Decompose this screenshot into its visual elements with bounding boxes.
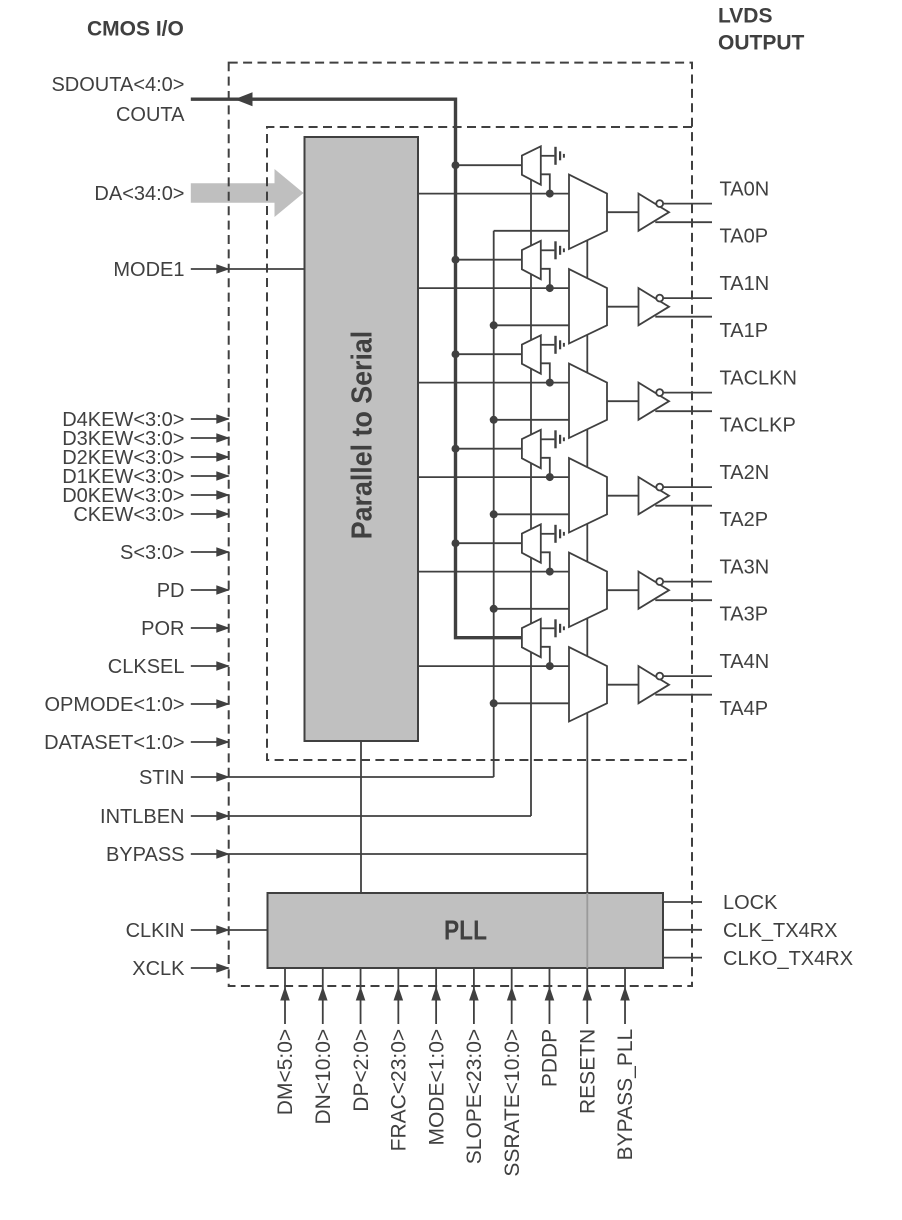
output mux X4 (big) (569, 553, 607, 627)
svg-text:BYPASS_PLL: BYPASS_PLL (614, 1029, 637, 1161)
wire serializer clock (P2S bottom to PLL top) (360, 741, 362, 893)
junction dot STIN ch5 (490, 699, 498, 707)
output mux X1 (big) (569, 269, 607, 343)
wire+arrow input OPMODE<1:0> (191, 699, 230, 709)
label TA3P (720, 603, 769, 625)
svg-text:SSRATE<10:0>: SSRATE<10:0> (501, 1029, 524, 1177)
wire loopback tap ch1 (456, 259, 522, 261)
wire STIN horizontal (229, 776, 494, 778)
label CKEW<3:0> (73, 504, 184, 526)
wire loopback mux out ch4 (541, 552, 550, 571)
svg-text:TA4N: TA4N (720, 651, 770, 673)
wire mux X1 to driver (607, 306, 639, 308)
wire loopback mux out ch1 (541, 269, 550, 288)
svg-text:TACLKP: TACLKP (720, 414, 796, 436)
svg-text:TA1P: TA1P (720, 320, 769, 342)
wire STIN stub to big mux ch0 (494, 230, 569, 232)
label XCLK (132, 958, 185, 980)
junction dot STIN ch1 (490, 321, 498, 329)
label TACLKP (720, 414, 796, 436)
LVDS driver A1 (639, 288, 670, 325)
wire STIN vertical (493, 231, 495, 777)
wire stub STIN label (191, 776, 229, 778)
output mux X2 (big) (569, 364, 607, 438)
LVDS driver A0 (639, 194, 670, 231)
label MODE<1:0> (rotated) (425, 1029, 448, 1146)
wire BYPASS vertical lower (to PLL top) (586, 854, 588, 893)
arrowhead FRAC<23:0> (points up) (394, 987, 404, 1001)
label DATASET<1:0> (44, 732, 184, 754)
svg-text:COUTA: COUTA (116, 104, 185, 126)
output mux X5 (big) (569, 647, 607, 721)
label SDOUTA<4:0> (51, 74, 184, 96)
label TACLKN (720, 367, 797, 389)
wire RESETN through PLL (faint) (586, 893, 588, 968)
junction dot node ch3 (546, 473, 554, 481)
label POR (141, 618, 184, 640)
LVDS driver A2 (639, 383, 670, 420)
svg-text:TA2P: TA2P (720, 509, 769, 531)
wire+arrow input CKEW<3:0> (191, 509, 230, 519)
output mux X3 (big) (569, 458, 607, 532)
label RESETN (rotated) (576, 1029, 599, 1114)
wire+arrow input XCLK (191, 963, 230, 973)
wire data ch0 from P2S (418, 193, 569, 195)
svg-text:DA<34:0>: DA<34:0> (94, 183, 184, 205)
wire+arrow input D0KEW<3:0> (191, 490, 230, 500)
wire PLL output CLK_TX4RX (663, 929, 702, 931)
wire TA4P (655, 694, 712, 696)
label DA<34:0> (94, 183, 184, 205)
loopback mux M5 (small) (522, 619, 541, 658)
wire data ch5 from P2S (418, 665, 569, 667)
wire STIN stub to big mux ch4 (494, 608, 569, 610)
label CLKSEL (108, 656, 185, 678)
label TA1N (720, 273, 770, 295)
label PLL (444, 915, 487, 946)
inverting bubble A1 (656, 295, 663, 302)
ground (tie-off) ch5 (541, 619, 564, 637)
svg-text:TACLKN: TACLKN (720, 367, 797, 389)
wire TA2P (655, 505, 712, 507)
wire+arrow input CLKIN (191, 925, 268, 935)
block U1 Parallel to Serial (305, 137, 419, 741)
wire+arrow input D4KEW<3:0> (191, 414, 230, 424)
wire feedback bus SDOUTA/COUTA (thick) (191, 99, 522, 638)
arrowhead BYPASS_PLL (points up) (620, 987, 630, 1001)
wire loopback tap ch0 (456, 164, 522, 166)
svg-text:PD: PD (157, 580, 185, 602)
wire TA0N (663, 203, 712, 205)
label BYPASS_PLL (rotated) (614, 1029, 637, 1161)
wire TA4N (663, 675, 712, 677)
wire mux X2 to driver (607, 400, 639, 402)
svg-text:CKEW<3:0>: CKEW<3:0> (73, 504, 184, 526)
arrowhead PDDP (points up) (545, 987, 555, 1001)
svg-text:DP<2:0>: DP<2:0> (350, 1029, 373, 1112)
svg-text:TA4P: TA4P (720, 698, 769, 720)
wire STIN stub to big mux ch2 (494, 419, 569, 421)
junction dot feedback bus tap ch4 (452, 539, 460, 547)
ground (tie-off) ch0 (541, 147, 564, 165)
wire data ch4 from P2S (418, 571, 569, 573)
wire TACLKN (663, 392, 712, 394)
inverting bubble A2 (656, 389, 663, 396)
wire PLL control PDDP (548, 968, 550, 1024)
wire+arrow input PD (191, 585, 230, 595)
arrowhead DM<5:0> (points up) (280, 987, 290, 1001)
svg-text:PDDP: PDDP (539, 1029, 562, 1087)
wire mux X4 to driver (607, 589, 639, 591)
label DN<10:0> (rotated) (312, 1029, 335, 1125)
svg-text:CMOS I/O: CMOS I/O (87, 18, 184, 41)
label TA2N (720, 462, 770, 484)
svg-text:CLKIN: CLKIN (126, 920, 185, 942)
arrowhead RESETN (points up) (582, 987, 592, 1001)
wire data ch2 from P2S (418, 382, 569, 384)
junction dot STIN ch3 (490, 510, 498, 518)
wire loopback tap ch3 (456, 448, 522, 450)
svg-text:LVDS: LVDS (718, 5, 772, 28)
wire stub BYPASS label (191, 853, 229, 855)
ground (tie-off) ch1 (541, 241, 564, 259)
wire loopback tap ch2 (456, 353, 522, 355)
label COUTA (116, 104, 185, 126)
arrowhead SDOUTA/COUTA (points left) (235, 92, 253, 106)
wire TA1P (655, 316, 712, 318)
inverting bubble A3 (656, 484, 663, 491)
wire TA2N (663, 486, 712, 488)
label TA4P (720, 698, 769, 720)
bus arrow DA<34:0> (wide gray) (191, 169, 304, 217)
arrowhead MODE<1:0> (points up) (431, 987, 441, 1001)
svg-text:DM<5:0>: DM<5:0> (274, 1029, 297, 1115)
wire mux X5 to driver (607, 684, 639, 686)
label S<3:0> (120, 542, 185, 564)
wire TA3P (655, 599, 712, 601)
outer chip boundary (dashed) (229, 63, 692, 986)
label D1KEW<3:0> (62, 466, 184, 488)
svg-text:MODE<1:0>: MODE<1:0> (425, 1029, 448, 1146)
inner serializer boundary (dashed) (267, 127, 692, 760)
svg-text:TA2N: TA2N (720, 462, 770, 484)
loopback mux M0 (small) (522, 146, 541, 185)
label INTLBEN (100, 806, 184, 828)
wire stub INTLBEN label (191, 815, 229, 817)
svg-text:OPMODE<1:0>: OPMODE<1:0> (44, 694, 184, 716)
svg-text:Parallel to Serial: Parallel to Serial (347, 331, 379, 540)
junction dot node ch4 (546, 568, 554, 576)
label D4KEW<3:0> (62, 409, 184, 431)
label TA2P (720, 509, 769, 531)
label FRAC<23:0> (rotated) (388, 1029, 411, 1152)
wire loopback tap ch4 (456, 542, 522, 544)
wire TACLKP (655, 410, 712, 412)
wire TA3N (663, 581, 712, 583)
wire+arrow input MODE1 (191, 264, 305, 274)
wire PLL control MODE<1:0> (435, 968, 437, 1024)
wire loopback mux out ch0 (541, 174, 550, 193)
ground (tie-off) ch4 (541, 525, 564, 543)
wire+arrow input DATASET<1:0> (191, 737, 230, 747)
junction dot STIN ch2 (490, 416, 498, 424)
label CLKO_TX4RX (723, 948, 853, 970)
label D3KEW<3:0> (62, 428, 184, 450)
label STIN (139, 767, 185, 789)
svg-text:OUTPUT: OUTPUT (718, 32, 805, 55)
svg-text:MODE1: MODE1 (113, 259, 184, 281)
wire PLL output LOCK (663, 901, 702, 903)
ground (tie-off) ch3 (541, 430, 564, 448)
junction dot node ch5 (546, 662, 554, 670)
svg-text:TA3P: TA3P (720, 603, 769, 625)
loopback mux M1 (small) (522, 241, 541, 279)
wire+arrow input D1KEW<3:0> (191, 471, 230, 481)
svg-text:SLOPE<23:0>: SLOPE<23:0> (463, 1029, 486, 1164)
wire PLL output CLKO_TX4RX (663, 957, 702, 959)
svg-text:TA0N: TA0N (720, 178, 770, 200)
label TA1P (720, 320, 769, 342)
wire PLL control DM<5:0> (284, 968, 286, 1024)
wire loopback mux out ch2 (541, 363, 550, 382)
svg-text:XCLK: XCLK (132, 958, 185, 980)
svg-text:BYPASS: BYPASS (106, 844, 185, 866)
label PDDP (rotated) (539, 1029, 562, 1087)
arrowhead INTLBEN (216, 811, 230, 821)
arrowhead STIN (216, 772, 230, 782)
LVDS driver A4 (639, 572, 670, 609)
junction dot feedback bus tap ch2 (452, 350, 460, 358)
wire+arrow input D3KEW<3:0> (191, 433, 230, 443)
loopback mux M4 (small) (522, 524, 541, 563)
junction dot STIN ch4 (490, 605, 498, 613)
inverting bubble A4 (656, 578, 663, 585)
wire loopback mux out ch3 (541, 458, 550, 477)
wire INTLBEN vertical (to small mux selects) (530, 180, 532, 816)
label BYPASS (106, 844, 185, 866)
label OPMODE<1:0> (44, 694, 184, 716)
label CLK_TX4RX (723, 920, 838, 942)
wire BYPASS vertical (to big mux selects) (586, 240, 588, 854)
wire TA0P (655, 221, 712, 223)
wire+arrow input S<3:0> (191, 547, 230, 557)
wire PLL control SLOPE<23:0> (473, 968, 475, 1024)
inverting bubble A5 (656, 673, 663, 680)
wire+arrow input POR (191, 623, 230, 633)
svg-text:PLL: PLL (444, 915, 487, 946)
arrowhead DP<2:0> (points up) (356, 987, 366, 1001)
svg-text:DN<10:0>: DN<10:0> (312, 1029, 335, 1125)
label TA3N (720, 556, 770, 578)
svg-text:TA0P: TA0P (720, 225, 769, 247)
label TA4N (720, 651, 770, 673)
wire PLL control RESETN (586, 968, 588, 1024)
wire PLL control BYPASS_PLL (624, 968, 626, 1024)
wire STIN stub to big mux ch5 (494, 702, 569, 704)
svg-text:DATASET<1:0>: DATASET<1:0> (44, 732, 184, 754)
title LVDS OUTPUT line2 (718, 32, 805, 55)
loopback mux M3 (small) (522, 430, 541, 469)
label MODE1 (113, 259, 184, 281)
arrowhead BYPASS (216, 849, 230, 859)
svg-text:SDOUTA<4:0>: SDOUTA<4:0> (51, 74, 184, 96)
wire data ch3 from P2S (418, 476, 569, 478)
label CLKIN (126, 920, 185, 942)
svg-text:CLKO_TX4RX: CLKO_TX4RX (723, 948, 853, 970)
wire BYPASS horizontal (229, 853, 588, 855)
loopback mux M2 (small) (522, 335, 541, 374)
wire mux X0 to driver (607, 211, 639, 213)
LVDS driver A5 (639, 666, 670, 703)
svg-text:TA3N: TA3N (720, 556, 770, 578)
svg-text:INTLBEN: INTLBEN (100, 806, 184, 828)
wire TA1N (663, 297, 712, 299)
junction dot feedback bus tap ch3 (452, 445, 460, 453)
wire PLL control SSRATE<10:0> (511, 968, 513, 1024)
wire STIN stub to big mux ch1 (494, 324, 569, 326)
label SLOPE<23:0> (rotated) (463, 1029, 486, 1164)
wire mux X3 to driver (607, 495, 639, 497)
label Parallel to Serial (rotated) (347, 331, 379, 540)
label SSRATE<10:0> (rotated) (501, 1029, 524, 1177)
arrowhead SLOPE<23:0> (points up) (469, 987, 479, 1001)
svg-text:LOCK: LOCK (723, 892, 778, 914)
block U2 PLL (268, 893, 664, 968)
wire PLL control DP<2:0> (360, 968, 362, 1024)
output mux X0 (big) (569, 175, 607, 249)
label D2KEW<3:0> (62, 447, 184, 469)
wire PLL control DN<10:0> (322, 968, 324, 1024)
wire INTLBEN horizontal (229, 815, 531, 817)
label DP<2:0> (rotated) (350, 1029, 373, 1112)
junction dot node ch2 (546, 379, 554, 387)
label PD (157, 580, 185, 602)
label TA0P (720, 225, 769, 247)
wire+arrow input CLKSEL (191, 661, 230, 671)
wire+arrow input D2KEW<3:0> (191, 452, 230, 462)
arrowhead SSRATE<10:0> (points up) (507, 987, 517, 1001)
title CMOS I/O (87, 18, 184, 41)
svg-text:CLKSEL: CLKSEL (108, 656, 185, 678)
junction dot feedback bus tap ch1 (452, 256, 460, 264)
svg-text:S<3:0>: S<3:0> (120, 542, 185, 564)
title LVDS OUTPUT line1 (718, 5, 772, 28)
svg-text:STIN: STIN (139, 767, 185, 789)
wire PLL control FRAC<23:0> (397, 968, 399, 1024)
label LOCK (723, 892, 778, 914)
svg-text:RESETN: RESETN (576, 1029, 599, 1114)
svg-text:TA1N: TA1N (720, 273, 770, 295)
svg-text:CLK_TX4RX: CLK_TX4RX (723, 920, 838, 942)
inverting bubble A0 (656, 200, 663, 207)
junction dot node ch1 (546, 284, 554, 292)
junction dot feedback bus tap ch0 (452, 161, 460, 169)
wire loopback mux out ch5 (541, 647, 550, 666)
ground (tie-off) ch2 (541, 336, 564, 354)
label D0KEW<3:0> (62, 485, 184, 507)
wire STIN stub to big mux ch3 (494, 513, 569, 515)
svg-text:POR: POR (141, 618, 184, 640)
label TA0N (720, 178, 770, 200)
arrowhead DN<10:0> (points up) (318, 987, 328, 1001)
junction dot node ch0 (546, 190, 554, 198)
label DM<5:0> (rotated) (274, 1029, 297, 1115)
svg-text:FRAC<23:0>: FRAC<23:0> (388, 1029, 411, 1152)
LVDS driver A3 (639, 477, 670, 514)
wire data ch1 from P2S (418, 287, 569, 289)
